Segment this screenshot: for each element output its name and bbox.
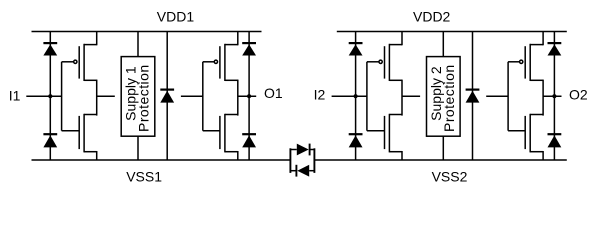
PMOS Q2BP channel [529,44,531,81]
node I2 junction dot [354,94,358,98]
diode D11b (VSS to node) [43,133,57,135]
PMOS Q1AP gate bubble [74,60,77,63]
PMOS Q1BP gate bubble [214,60,217,63]
NMOS Q2AN source wire to VSS [401,151,403,160]
wire bottom branch left [290,170,296,172]
ESD branch wire at x=249.1 [248,32,250,161]
svg-text:VDD1: VDD1 [157,8,195,24]
PMOS Q2BP gate wire [508,61,519,63]
PMOS Q1BP gate wire [203,61,215,63]
NMOS Q1AN drain arm [84,114,97,116]
svg-text:Protection: Protection [136,64,152,132]
diode D12b (VSS to node) [242,133,256,135]
NMOS Q2AN gate bar [384,116,386,149]
wire inverter 2B input stub [486,95,508,97]
svg-text:I1: I1 [9,87,21,103]
PMOS Q1AP gate bar [78,46,80,78]
PMOS Q2AP source wire to VDD [401,32,403,46]
wire drain connection [237,80,239,116]
PMOS Q2AP gate wire [367,61,379,63]
svg-text:VSS2: VSS2 [432,169,468,185]
NMOS Q1BN source wire to VSS [237,151,239,160]
PMOS Q2AP channel [388,44,390,81]
PMOS Q1BP drain arm [225,79,238,81]
svg-text:O2: O2 [569,86,588,102]
NMOS Q2BN channel [529,114,531,153]
NMOS Q1BN gate wire [203,130,220,132]
PMOS Q1BP channel [224,44,226,81]
NMOS Q2BN source wire to VSS [542,151,544,160]
node O1 junction dot [247,94,251,98]
wire input I2 [332,95,367,97]
NMOS Q1BN drain arm [225,114,238,116]
wire inverter 1A output stub [97,95,115,97]
NMOS Q2BN gate bar [524,116,526,149]
NMOS Q1AN gate bar [78,116,80,149]
PMOS Q2BP gate bar [524,46,526,78]
NMOS Q1AN gate wire [62,130,80,132]
NMOS Q2BN drain arm [530,114,543,116]
diode D22a (node to VDD) [548,42,562,44]
PMOS Q1BP source arm [225,44,238,46]
NMOS Q2AN gate wire [367,130,385,132]
svg-text:VSS1: VSS1 [126,168,162,184]
NMOS Q2AN source arm [389,151,402,153]
PMOS Q2AP gate bar [384,46,386,78]
wire inverter 2A output stub [402,95,420,97]
PMOS Q1AP channel [83,44,85,81]
pair left terminal bar [289,148,291,173]
NMOS Q2BN gate wire [508,130,525,132]
diode D22b (VSS to node) [548,133,562,135]
PMOS Q1BP gate bar [219,46,221,78]
wire inverter 1B input stub [181,95,203,97]
VSS2 rail [314,159,566,161]
NMOS Q1AN channel [83,114,85,153]
clamp diode D23 (VSS2 to VDD2) [472,32,474,161]
NMOS Q2AN drain arm [389,114,402,116]
wire input I1 [26,95,61,97]
wire box to VSS2 [442,136,444,160]
PMOS Q2AP gate bubble [379,60,382,63]
diode D12a (node to VDD) [242,42,256,44]
svg-text:I2: I2 [314,87,326,103]
wire box to VSS1 [137,136,139,160]
NMOS Q1AN source wire to VSS [96,151,98,160]
PMOS Q1AP source arm [84,44,97,46]
PMOS Q2BP gate bubble [520,60,523,63]
diode D21b (VSS to node) [349,133,363,135]
PMOS Q2BP source wire to VDD [542,32,544,46]
wire top branch left [290,149,296,151]
pair right terminal bar [313,148,315,173]
wire drain connection [542,80,544,116]
svg-text:O1: O1 [264,85,283,101]
PMOS Q2AP drain arm [389,79,402,81]
VDD1 rail [32,31,262,33]
NMOS Q2AN channel [388,114,390,153]
diode D6 (VSS2 to VSS1, pointing left) [297,165,309,177]
inverter Q2A gate input line [366,62,368,131]
NMOS Q1BN channel [224,114,226,153]
supply protection box U2 [427,57,461,137]
wire inverter 1B output to O1 [238,95,256,97]
NMOS Q1BN source arm [225,151,238,153]
ESD branch wire at x=554.4 [553,32,555,161]
wire drain connection [401,80,403,116]
wire box to VDD1 [137,32,139,57]
NMOS Q1AN source arm [84,151,97,153]
diode D11a (node to VDD) [43,42,57,44]
ESD branch wire at x=50.3 [49,32,51,161]
wire top branch right [310,149,315,151]
inverter Q2B gate input line [507,62,509,131]
PMOS Q2BP drain arm [530,79,543,81]
diode D21a (node to VDD) [349,42,363,44]
PMOS Q2BP source arm [530,44,543,46]
PMOS Q1BP source wire to VDD [237,32,239,46]
VSS1 rail [32,159,291,161]
diode D5 (VSS1 to VSS2, pointing right) [297,144,309,156]
node O2 junction dot [552,94,556,98]
PMOS Q1AP drain arm [84,79,97,81]
PMOS Q1AP source wire to VDD [96,32,98,46]
ESD branch wire at x=355.6 [355,32,357,161]
wire box to VDD2 [442,32,444,57]
PMOS Q1AP gate wire [62,61,74,63]
inverter Q1B gate input line [202,62,204,131]
node I1 junction dot [48,94,52,98]
svg-text:Protection: Protection [441,64,457,132]
wire bottom branch right [309,170,314,172]
svg-text:VDD2: VDD2 [413,8,451,24]
NMOS Q1BN gate bar [219,116,221,149]
VDD2 rail [337,31,567,33]
inverter Q1A gate input line [61,62,63,131]
clamp diode D13 (VSS1 to VDD1) [166,32,168,161]
supply protection box U1 [121,57,155,137]
wire drain connection [96,80,98,116]
NMOS Q2BN source arm [530,151,543,153]
wire inverter 2B output to O2 [543,95,561,97]
PMOS Q2AP source arm [389,44,402,46]
